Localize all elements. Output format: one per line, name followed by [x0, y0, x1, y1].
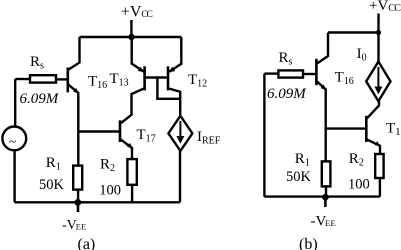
wire T17 emitter (b) [367, 140, 380, 154]
svg-text:T13: T13 [110, 71, 129, 89]
svg-text:(a): (a) [78, 236, 96, 250]
wire left drop to T16 collector (a) [68, 37, 79, 70]
wire -Vee stub (b) [324, 197, 327, 207]
svg-text:T17: T17 [386, 121, 401, 139]
svg-text:T16: T16 [88, 74, 107, 92]
wire T12 collector to Iref (a) [169, 89, 180, 116]
resistor Rs box (b) [278, 70, 303, 77]
transistor T13 bar (a) [143, 66, 146, 90]
arrowhead I0 current arrow (b) [374, 87, 382, 95]
resistor R2 box (b) [375, 154, 383, 178]
svg-text:T16: T16 [335, 69, 354, 87]
node dot Vcc rail (b) [376, 30, 381, 35]
arrowhead T12 emitter (a) [169, 67, 176, 72]
svg-text:-VEE: -VEE [311, 213, 337, 229]
wire bottom rail (b) [264, 195, 380, 197]
svg-text:R2: R2 [100, 156, 115, 174]
resistor R1 box (b) [322, 161, 331, 186]
svg-text:Rs: Rs [30, 54, 44, 72]
svg-text:R1: R1 [46, 155, 61, 173]
wire T16 emitter (b) [317, 82, 326, 162]
wire T17 collector (a) [121, 89, 144, 124]
wire R2 to rail (b) [379, 178, 381, 197]
wire R1 to rail (a) [77, 190, 79, 203]
wire T13 emitter from rail (a) [132, 37, 144, 72]
svg-text:6.09M: 6.09M [267, 86, 307, 102]
wire R2 to rail (a) [131, 185, 133, 203]
wire Iref to rail (a) [179, 151, 181, 202]
arrowhead T16 emitter (b) [321, 84, 327, 90]
wire left drop to T16 collector (b) [317, 33, 328, 64]
wire T17 collector (b) [367, 101, 379, 118]
resistor R1 box (a) [73, 166, 82, 190]
wire bottom rail (a) [15, 201, 180, 203]
current source Iref diamond (a) [168, 116, 192, 151]
transistor T16 bar (a) [67, 68, 70, 93]
arrowhead T17 emitter (a) [127, 143, 133, 149]
resistor Rs box (a) [30, 75, 56, 82]
wire T17 emitter (a) [121, 139, 132, 159]
svg-text:100: 100 [348, 177, 370, 193]
svg-text:Rs: Rs [279, 50, 293, 68]
resistor R2 box (a) [127, 159, 136, 185]
transistor T12 bar (a) [167, 66, 170, 90]
svg-text:~: ~ [9, 135, 17, 150]
wire T17 base branch (a) [78, 130, 119, 132]
arrowhead T16 emitter (a) [73, 88, 79, 94]
wire T16 base (b) [303, 73, 315, 75]
node dot Vcc rail (a) [128, 34, 134, 40]
svg-text:R2: R2 [349, 151, 364, 169]
svg-text:T17: T17 [137, 127, 156, 145]
svg-text:R1: R1 [295, 151, 310, 169]
transistor T17 bar (a) [119, 120, 122, 142]
svg-text:+VCC: +VCC [121, 4, 153, 21]
wire Rs left (a) [15, 78, 30, 80]
wire I0 arrow shaft (b) [377, 67, 379, 90]
transistor T16 bar (b) [315, 59, 318, 85]
wire left vertical to source (a) [14, 79, 16, 127]
svg-text:50K: 50K [39, 177, 65, 193]
arrowhead T17 emitter (b) [375, 141, 381, 146]
wire R1 to rail (b) [325, 186, 327, 196]
wire -Vee stub (a) [77, 202, 80, 212]
node dot R1 bottom rail (a) [74, 199, 81, 206]
svg-text:100: 100 [99, 182, 121, 198]
wire Rs left (b) [264, 72, 278, 74]
ac source circle (a) [2, 126, 26, 150]
wire T16 base (a) [56, 78, 67, 80]
wire base tie T13-T12 (a) [146, 76, 167, 78]
svg-text:+VCC: +VCC [369, 0, 401, 14]
arrowhead T13 emitter (a) [138, 67, 145, 72]
transistor T17 bar (b) [365, 116, 368, 142]
node dot R1 bottom rail (b) [322, 194, 329, 201]
wire T17 base branch (b) [326, 127, 365, 129]
wire top rail (b) [328, 31, 379, 33]
current source I0 diamond (b) [366, 62, 390, 102]
wire T12 emitter from rail (a) [169, 37, 181, 72]
svg-text:50K: 50K [286, 169, 312, 185]
wire T16 emitter (a) [68, 85, 78, 166]
wire below source (a) [13, 150, 15, 202]
wire +Vcc stub to I0 (b) [377, 14, 379, 62]
svg-text:-VEE: -VEE [62, 218, 87, 233]
wire T12 base-collector tie (a) [157, 78, 180, 99]
svg-text:(b): (b) [299, 236, 318, 250]
wire top rail (a) [80, 36, 182, 38]
svg-text:T12: T12 [188, 72, 207, 90]
svg-text:I0: I0 [357, 46, 367, 64]
arrowhead Iref current arrow (a) [176, 136, 184, 144]
wire left vertical (b) [263, 74, 265, 197]
svg-text:6.09M: 6.09M [20, 91, 60, 107]
svg-text:IREF: IREF [197, 129, 221, 147]
wire +Vcc stub (a) [130, 20, 132, 37]
wire Iref arrow shaft (a) [179, 121, 181, 139]
